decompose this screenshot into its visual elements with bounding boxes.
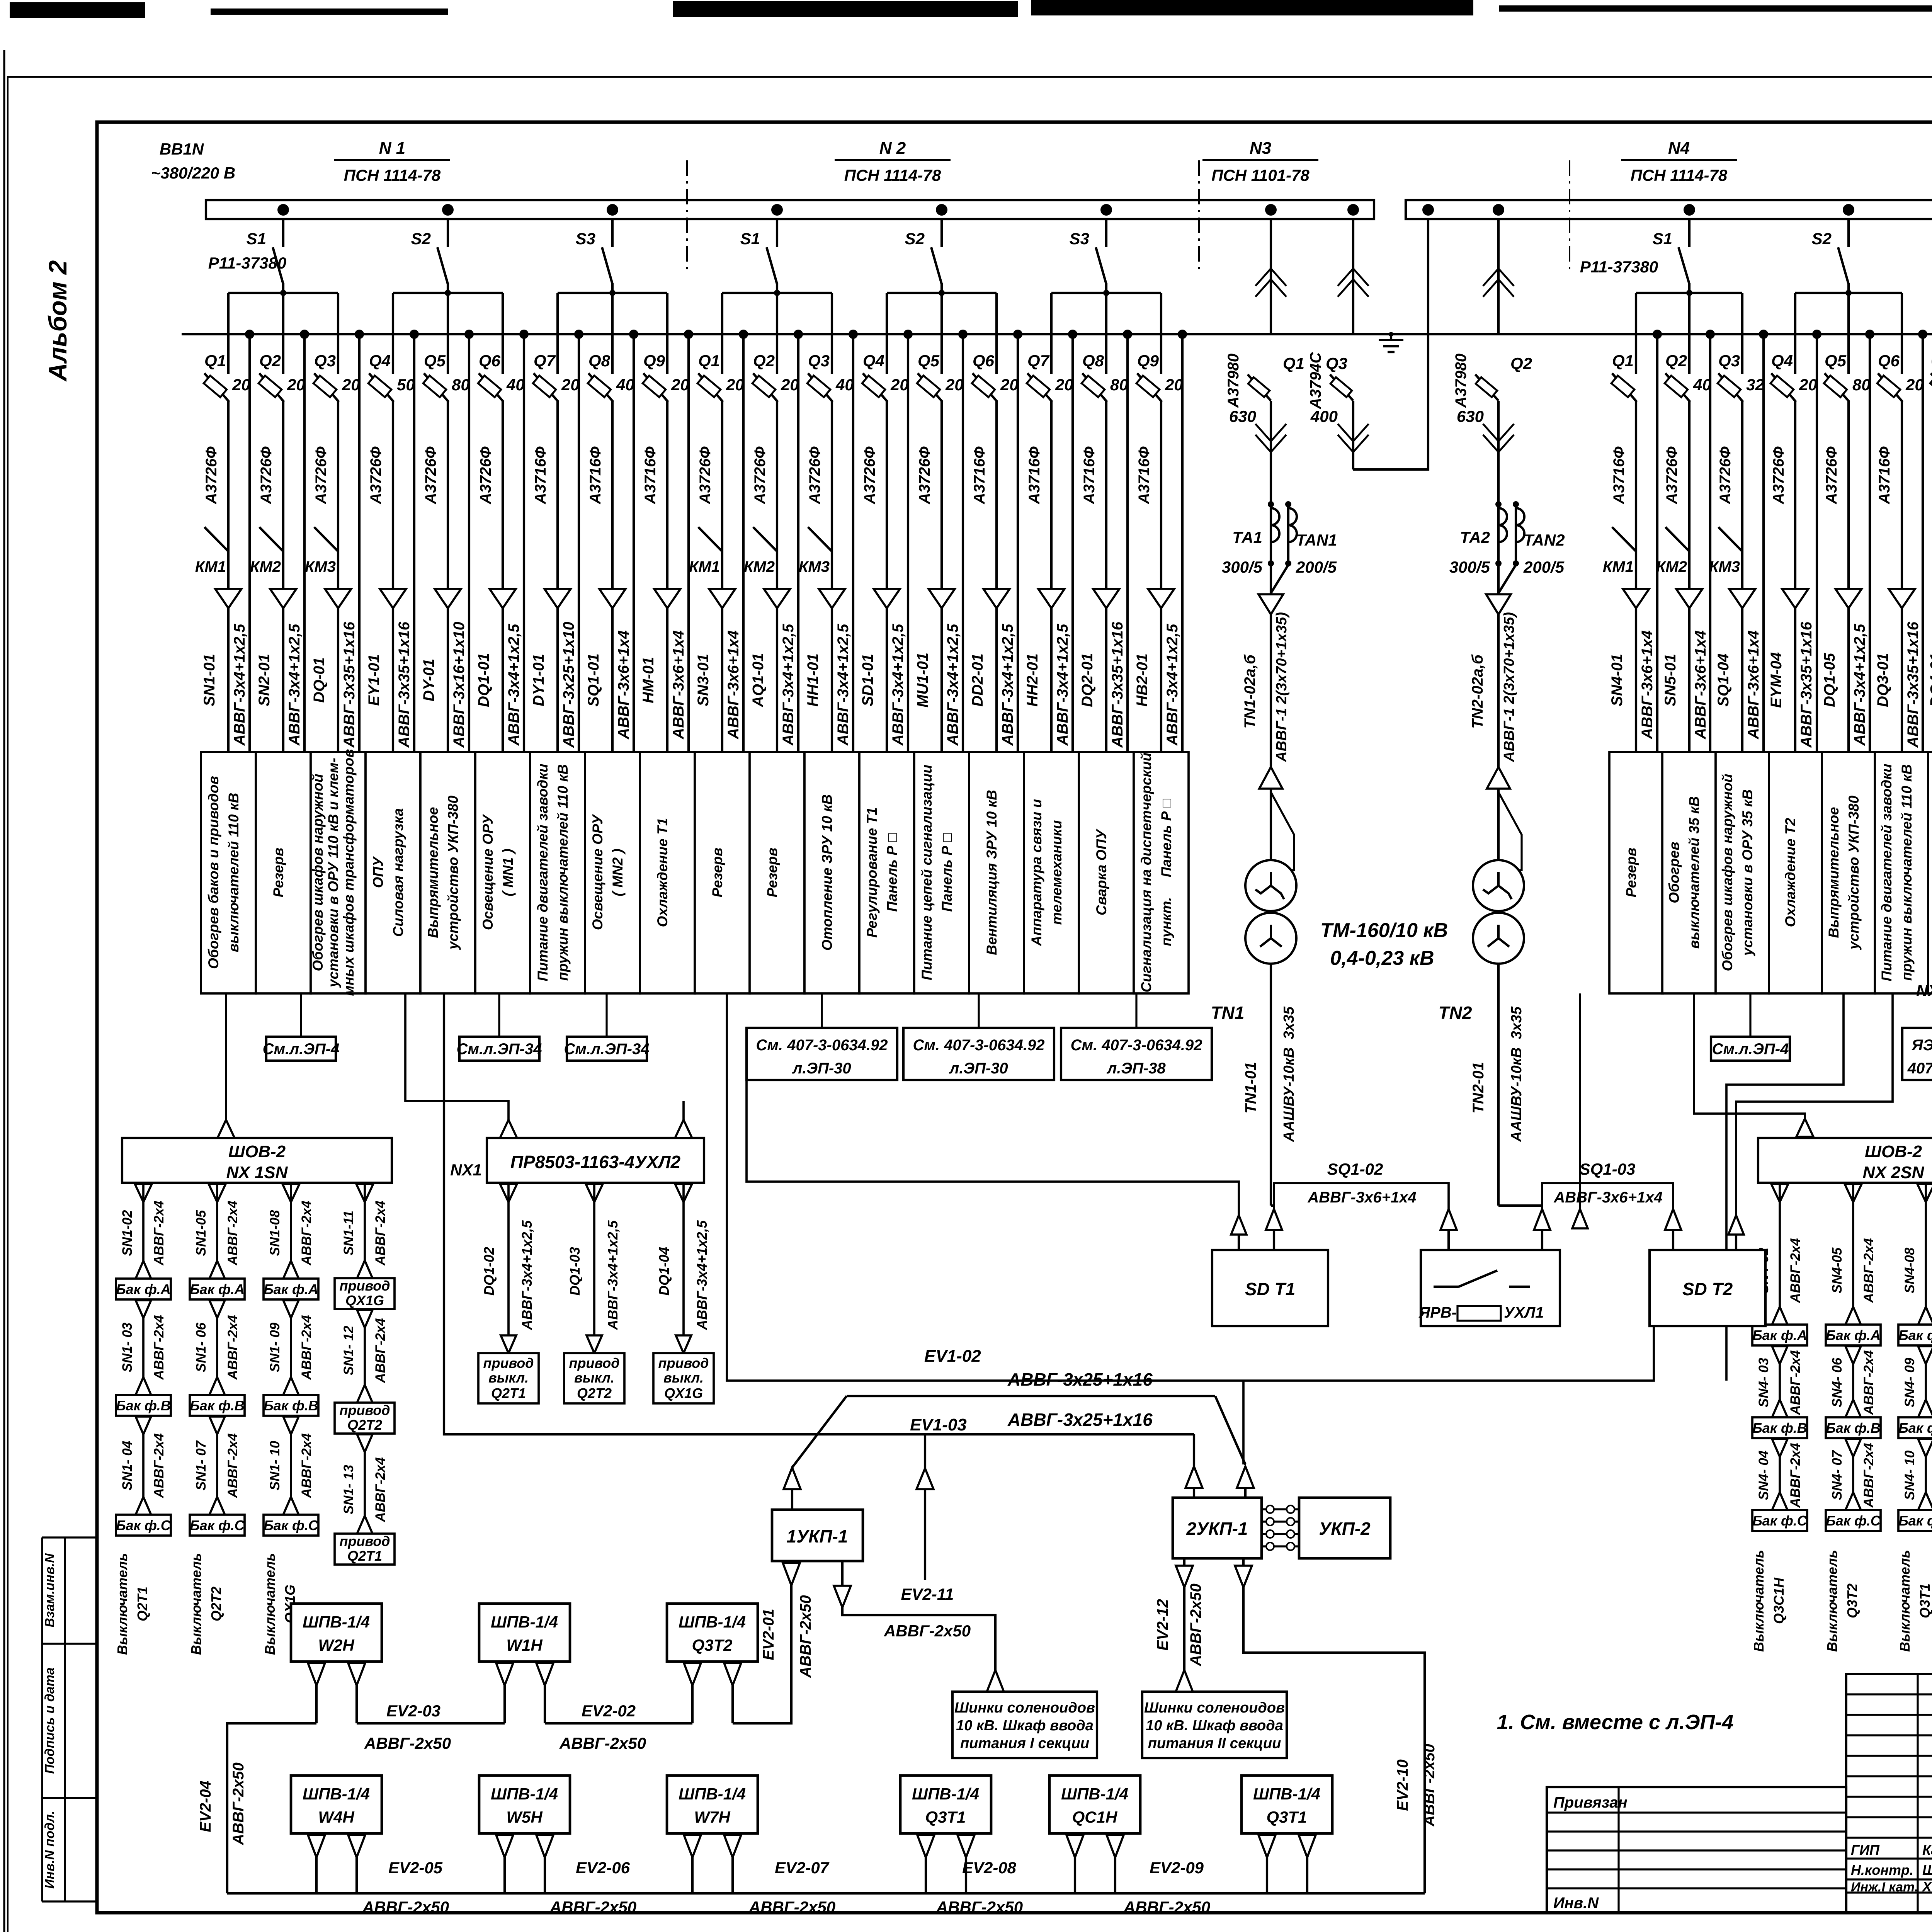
svg-text:АВВГ-1 2(3х70+1х35): АВВГ-1 2(3х70+1х35) (1274, 612, 1290, 762)
svg-text:200/5: 200/5 (1523, 558, 1565, 576)
ground symbol (1390, 334, 1392, 340)
svg-text:N 2: N 2 (879, 139, 906, 158)
svg-text:АВВГ-3х6+1х4: АВВГ-3х6+1х4 (1692, 630, 1709, 739)
svg-text:См.л.ЭП-4: См.л.ЭП-4 (1712, 1041, 1789, 1058)
svg-text:Привязан: Привязан (1553, 1794, 1628, 1811)
wire TN2 to lintel (1498, 1204, 1542, 1207)
svg-text:S1: S1 (1653, 230, 1672, 248)
svg-text:АВВГ-2х4: АВВГ-2х4 (225, 1315, 240, 1380)
cable arrow (874, 589, 900, 608)
breaker Q8 feeder (1079, 293, 1128, 752)
svg-text:См. 407-3-0634.92: См. 407-3-0634.92 (756, 1037, 888, 1054)
svg-text:EV2-08: EV2-08 (962, 1859, 1017, 1877)
load box: Сигнализация на диспетчерский (1134, 752, 1189, 993)
svg-text:Q2T2: Q2T2 (208, 1587, 224, 1621)
svg-text:SN1- 10: SN1- 10 (267, 1440, 282, 1490)
svg-text:выкл.: выкл. (574, 1370, 614, 1386)
svg-text:АВВГ-3х35+1х16: АВВГ-3х35+1х16 (396, 621, 413, 748)
svg-text:мных шкафов трансформаторов: мных шкафов трансформаторов (341, 749, 357, 996)
svg-text:Охлаждение Т1: Охлаждение Т1 (655, 818, 670, 927)
cable arrow (929, 589, 955, 608)
svg-text:Сварка ОПУ: Сварка ОПУ (1094, 828, 1109, 915)
svg-text:А3716Ф: А3716Ф (1026, 446, 1043, 505)
svg-text:АВВГ-3х4+1х2,5: АВВГ-3х4+1х2,5 (889, 624, 906, 746)
svg-text:КМ3: КМ3 (305, 558, 336, 575)
fanout column SN4-08 (1897, 1183, 1932, 1652)
ref box л.ЭП-30 (747, 993, 897, 1080)
svg-text:SN4- 04: SN4- 04 (1756, 1451, 1771, 1500)
svg-text:80: 80 (1110, 376, 1128, 394)
svg-text:Освещение ОРУ: Освещение ОРУ (590, 814, 605, 930)
svg-text:А3716Ф: А3716Ф (1081, 446, 1098, 505)
svg-text:N4: N4 (1668, 139, 1690, 158)
svg-text:EV2-09: EV2-09 (1150, 1859, 1204, 1877)
wire EV2-11 (834, 1561, 1004, 1692)
svg-text:Q3T1: Q3T1 (1917, 1583, 1932, 1618)
svg-text:ШПВ-1/4: ШПВ-1/4 (491, 1785, 558, 1803)
load box: Выпрямительное (1822, 752, 1875, 993)
svg-text:ТА1: ТА1 (1232, 528, 1262, 546)
svg-text:АВВГ-2х4: АВВГ-2х4 (225, 1201, 240, 1265)
arrow into SD T2 right (1728, 1215, 1744, 1235)
svg-text:EV2-03: EV2-03 (386, 1702, 440, 1720)
svg-text:20: 20 (671, 376, 689, 394)
breaker Q6 feeder (1874, 293, 1924, 752)
svg-text:АВВГ-2х50: АВВГ-2х50 (748, 1898, 835, 1916)
svg-text:Хействер: Хействер (1922, 1879, 1932, 1895)
svg-text:Q6: Q6 (973, 352, 995, 370)
svg-text:40: 40 (616, 376, 634, 394)
reserve tap wire (410, 330, 419, 339)
svg-text:80: 80 (1852, 376, 1871, 394)
svg-text:HB2-01: HB2-01 (1134, 653, 1151, 707)
svg-text:DQ3-01: DQ3-01 (1874, 653, 1891, 707)
feeder arrow TN2 (1486, 594, 1511, 614)
svg-text:ПСН 1114-78: ПСН 1114-78 (844, 166, 941, 184)
breaker Q9 feeder (1134, 293, 1183, 752)
svg-text:EV2-02: EV2-02 (582, 1702, 636, 1720)
svg-text:SD1-01: SD1-01 (859, 654, 876, 706)
breaker Q2 feeder (1656, 293, 1711, 752)
svg-text:Бак ф.С: Бак ф.С (116, 1517, 171, 1533)
cable arrow (435, 589, 461, 608)
title block (1846, 1674, 1932, 1913)
svg-text:QC1H: QC1H (1072, 1808, 1118, 1827)
current transformers ТА1/TAN1 (1222, 501, 1337, 593)
wire from load box to SD T2 (1736, 993, 1893, 1215)
svg-text:пружин выключателей 110 кВ: пружин выключателей 110 кВ (1899, 764, 1915, 981)
load box: Резерв (750, 752, 804, 993)
svg-text:SN2-01: SN2-01 (256, 654, 273, 706)
ref box л.ЭП-38 (1061, 993, 1212, 1080)
svg-text:20: 20 (945, 376, 964, 394)
svg-text:ШПВ-1/4: ШПВ-1/4 (491, 1613, 558, 1631)
feed to NX2SN (1694, 993, 1805, 1119)
svg-text:Бак ф.В: Бак ф.В (264, 1398, 318, 1413)
svg-text:установки в ОРУ 35 кВ: установки в ОРУ 35 кВ (1740, 789, 1755, 957)
current transformers ТА2/TAN2 (1449, 501, 1565, 593)
svg-text:Q3: Q3 (314, 352, 336, 370)
cable arrow (1093, 589, 1119, 608)
svg-text:Резерв: Резерв (764, 848, 780, 898)
svg-text:АВВГ-2х50: АВВГ-2х50 (1187, 1583, 1204, 1667)
breaker Q3 feeder (305, 293, 360, 752)
svg-text:20: 20 (1905, 376, 1924, 394)
feeds to PR8503 (405, 993, 509, 1120)
svg-text:SN1- 03: SN1- 03 (120, 1322, 135, 1372)
svg-text:Выключатель: Выключатель (1824, 1550, 1840, 1652)
svg-text:Бак ф.С: Бак ф.С (1826, 1513, 1881, 1529)
svg-text:DQ1-03: DQ1-03 (567, 1247, 583, 1296)
svg-text:Q3: Q3 (808, 352, 830, 370)
svg-text:EV2-12: EV2-12 (1154, 1599, 1171, 1650)
svg-text:ПСН 1114-78: ПСН 1114-78 (1631, 166, 1728, 184)
ref box л.ЭП-30 (903, 993, 1054, 1080)
load box: Питание двигателей заводки (1875, 752, 1928, 993)
title block left extension (1547, 1787, 1846, 1913)
load box: Резерв (256, 752, 311, 993)
svg-text:SD T1: SD T1 (1245, 1279, 1295, 1299)
svg-text:HH1-01: HH1-01 (804, 653, 821, 707)
svg-text:S3: S3 (1070, 230, 1089, 248)
svg-text:АВВГ-3х4+1х2,5: АВВГ-3х4+1х2,5 (605, 1220, 621, 1330)
wire EV2-10 (1235, 1559, 1438, 1893)
svg-text:АВВГ-2х4: АВВГ-2х4 (299, 1201, 314, 1265)
svg-text:УКП-2: УКП-2 (1319, 1519, 1371, 1539)
svg-text:1УКП-1: 1УКП-1 (786, 1526, 848, 1546)
svg-text:32: 32 (1746, 376, 1764, 394)
svg-text:Бак ф.В: Бак ф.В (116, 1398, 171, 1413)
svg-text:А37980: А37980 (1452, 354, 1469, 408)
svg-text:А3726Ф: А3726Ф (806, 446, 823, 505)
svg-text:Подпись и дата: Подпись и дата (43, 1667, 57, 1774)
svg-text:DY1-01: DY1-01 (530, 654, 547, 706)
cable SQ1-03 lintel (1534, 1160, 1681, 1250)
svg-text:Q2: Q2 (753, 352, 775, 370)
svg-text:АВВГ-2х4: АВВГ-2х4 (299, 1315, 314, 1380)
svg-text:АВВГ-3х35+1х16: АВВГ-3х35+1х16 (341, 621, 358, 748)
svg-text:TN1-02а,б: TN1-02а,б (1242, 654, 1259, 729)
svg-text:W4H: W4H (318, 1808, 355, 1826)
load box: Питание двигателей заводки (530, 752, 585, 993)
svg-text:КМ3: КМ3 (1709, 558, 1740, 575)
svg-text:SN1- 06: SN1- 06 (194, 1322, 209, 1372)
svg-text:А3726Ф: А3726Ф (861, 446, 878, 505)
svg-text:А3726Ф: А3726Ф (313, 446, 330, 505)
cable arrow (1835, 589, 1862, 608)
svg-text:АВВГ-3х6+1х4: АВВГ-3х6+1х4 (1553, 1189, 1662, 1206)
svg-text:Q9: Q9 (1137, 352, 1159, 370)
svg-text:установки в ОРУ 110 кВ и клем-: установки в ОРУ 110 кВ и клем- (325, 758, 341, 988)
load box: Обогрев шкафов наружной (1716, 752, 1769, 993)
svg-text:Обогрев баков и приводов: Обогрев баков и приводов (206, 776, 221, 969)
svg-text:AQ1-01: AQ1-01 (750, 653, 767, 707)
svg-text:КМ1: КМ1 (195, 558, 226, 575)
svg-text:АВВГ-3х25+1х16: АВВГ-3х25+1х16 (1007, 1369, 1153, 1389)
svg-text:См.л.ЭП-34: См.л.ЭП-34 (564, 1041, 650, 1058)
reserve tap wire (1123, 330, 1132, 339)
svg-text:А3726Ф: А3726Ф (1823, 446, 1840, 505)
svg-text:Q1: Q1 (1612, 352, 1634, 370)
cable arrow (983, 589, 1010, 608)
svg-text:АВВГ-2х50: АВВГ-2х50 (884, 1622, 971, 1640)
svg-text:выкл.: выкл. (488, 1370, 529, 1386)
svg-text:Отопление ЗРУ 10 кВ: Отопление ЗРУ 10 кВ (819, 794, 835, 951)
reserve tap wire (739, 330, 748, 339)
svg-text:А3726Ф: А3726Ф (422, 446, 439, 505)
transformer TN1 (1211, 792, 1296, 1206)
svg-text:См. 407-3-0634.92: См. 407-3-0634.92 (1071, 1037, 1202, 1054)
bus sections N4-N5 (1406, 200, 1932, 219)
svg-text:АВВГ-2х4: АВВГ-2х4 (151, 1315, 167, 1380)
wire to 2UKP right arrow (1242, 1381, 1245, 1464)
svg-text:SN1- 09: SN1- 09 (267, 1322, 282, 1372)
fuse feeder DQ1-03 (564, 1183, 624, 1403)
svg-text:EV1-02: EV1-02 (924, 1347, 981, 1366)
svg-text:ПР8503-1163-4УХЛ2: ПР8503-1163-4УХЛ2 (510, 1152, 681, 1172)
svg-text:SN1-08: SN1-08 (267, 1210, 282, 1256)
svg-text:20: 20 (1055, 376, 1073, 394)
svg-text:Резерв: Резерв (1623, 848, 1639, 898)
svg-text:ШПВ-1/4: ШПВ-1/4 (303, 1613, 370, 1631)
svg-text:10 кВ. Шкаф ввода: 10 кВ. Шкаф ввода (1146, 1718, 1283, 1734)
contactor КМ1 (698, 527, 722, 551)
wire bracket (1636, 292, 1742, 294)
breaker Q7 feeder (1024, 293, 1073, 752)
wire EV2-04 (227, 1723, 316, 1893)
svg-text:А3726Ф: А3726Ф (1717, 446, 1734, 505)
breaker Q2 feeder (250, 293, 305, 752)
svg-text:А3726Ф: А3726Ф (1663, 446, 1680, 505)
svg-text:40: 40 (835, 376, 854, 394)
reserve tap wire (1013, 330, 1022, 339)
fuse feeder DQ1-02 (478, 1183, 539, 1403)
svg-text:ААШВУ-10кВ 3х35: ААШВУ-10кВ 3х35 (1509, 1006, 1525, 1142)
svg-text:Резерв: Резерв (709, 848, 725, 898)
svg-text:SN4- 06: SN4- 06 (1830, 1357, 1845, 1407)
wire from ref box to SD T1 (747, 1080, 1239, 1215)
svg-text:EV2-11: EV2-11 (901, 1585, 954, 1603)
box ShPV QC1H (1049, 1776, 1140, 1893)
svg-text:А3726Ф: А3726Ф (916, 446, 933, 505)
reserve tap wire (1706, 330, 1715, 339)
reserve tap wire (1918, 330, 1927, 339)
svg-text:устройство УКП-380: устройство УКП-380 (445, 796, 461, 951)
TN1 feeder from bus N3 (1225, 204, 1304, 595)
svg-text:привод: привод (569, 1355, 619, 1371)
svg-text:АВВГ-3х4+1х2,5: АВВГ-3х4+1х2,5 (1851, 624, 1868, 746)
breaker Q7 feeder (1927, 293, 1932, 752)
svg-text:Бак ф.А: Бак ф.А (1752, 1327, 1807, 1343)
wire EV2-12 (1154, 1559, 1204, 1692)
svg-text:0,4-0,23 кВ: 0,4-0,23 кВ (1330, 947, 1434, 969)
svg-text:АВВГ-2х4: АВВГ-2х4 (299, 1433, 314, 1498)
svg-text:Q4: Q4 (369, 352, 391, 370)
svg-text:SN4- 07: SN4- 07 (1830, 1450, 1845, 1500)
svg-text:Q3T1: Q3T1 (925, 1808, 966, 1827)
svg-text:200/5: 200/5 (1296, 558, 1337, 576)
wire bracket (1051, 292, 1161, 294)
switch S2 (1847, 219, 1850, 247)
load box: Сварка ОРУ 110 кВ (1928, 752, 1932, 993)
svg-text:Q5: Q5 (1825, 352, 1847, 370)
ref box См.л.ЭП-34 (457, 993, 542, 1061)
fuse feeder DQ1-04 (653, 1183, 714, 1403)
svg-text:А3794С: А3794С (1307, 352, 1324, 410)
reserve tap wire (300, 330, 309, 339)
svg-text:АВВГ-1 2(3х70+1х35): АВВГ-1 2(3х70+1х35) (1501, 612, 1517, 762)
svg-text:АВВГ-3х6+1х4: АВВГ-3х6+1х4 (1639, 630, 1656, 739)
load box: Обогрев (1662, 752, 1716, 993)
svg-text:А3716Ф: А3716Ф (1876, 446, 1893, 505)
cable arrow (1148, 589, 1174, 608)
fuse cabinet PR8503 (487, 1138, 704, 1183)
svg-text:SN1- 07: SN1- 07 (194, 1440, 209, 1490)
svg-text:Q3T2: Q3T2 (692, 1636, 732, 1655)
contactor КМ1 (1612, 527, 1636, 551)
svg-text:Q8: Q8 (588, 352, 611, 370)
svg-text:20: 20 (890, 376, 909, 394)
svg-text:SN4-05: SN4-05 (1830, 1247, 1845, 1293)
svg-text:АВВГ-2х4: АВВГ-2х4 (373, 1457, 388, 1522)
svg-text:Q2T2: Q2T2 (577, 1385, 612, 1401)
svg-text:Инв.N: Инв.N (1553, 1895, 1599, 1912)
svg-text:Q3T1: Q3T1 (1266, 1808, 1307, 1827)
svg-text:А3726Ф: А3726Ф (477, 446, 494, 505)
svg-text:Шинки соленоидов: Шинки соленоидов (954, 1700, 1095, 1716)
svg-text:Бак ф.В: Бак ф.В (190, 1398, 245, 1413)
bottom run to SD T2 (727, 993, 1654, 1381)
cable arrow (654, 589, 680, 608)
svg-text:А3726Ф: А3726Ф (258, 446, 275, 505)
svg-text:А3716Ф: А3716Ф (1611, 446, 1628, 505)
breaker Q8 feeder (585, 293, 634, 752)
breaker Q9 feeder (640, 293, 689, 752)
svg-text:привод: привод (483, 1355, 534, 1371)
svg-text:SN4- 03: SN4- 03 (1756, 1357, 1771, 1407)
svg-text:АВВГ-2х50: АВВГ-2х50 (230, 1762, 247, 1845)
svg-text:А3726Ф: А3726Ф (203, 446, 220, 505)
ref box См.л.ЭП-4 (263, 993, 340, 1061)
cable arrow (599, 589, 626, 608)
svg-text:Q6: Q6 (479, 352, 501, 370)
svg-text:А3716Ф: А3716Ф (1929, 446, 1932, 505)
svg-text:300/5: 300/5 (1222, 558, 1263, 576)
reserve tap wire (245, 330, 254, 339)
wire TN1 to lintel (1271, 1204, 1274, 1207)
svg-text:АВВГ-2х50: АВВГ-2х50 (362, 1898, 449, 1916)
transformer TN2 (1439, 792, 1524, 1206)
contactor КМ3 (808, 527, 832, 551)
collector bus line (182, 333, 1932, 335)
svg-text:ГИП: ГИП (1851, 1842, 1880, 1858)
svg-text:ШПВ-1/4: ШПВ-1/4 (912, 1785, 979, 1803)
svg-text:Q2: Q2 (1510, 354, 1532, 373)
svg-text:Q3: Q3 (1718, 352, 1740, 370)
svg-text:АВВГ-2х4: АВВГ-2х4 (1788, 1350, 1803, 1415)
solenoid bus box I (952, 1692, 1097, 1758)
load box: Охлаждение Т1 (640, 752, 695, 993)
arrow into TN2 (1487, 767, 1510, 789)
svg-text:АВВГ-2х50: АВВГ-2х50 (1421, 1744, 1438, 1827)
panel 1UKP-1 (772, 1468, 863, 1561)
svg-text:КМ2: КМ2 (744, 558, 775, 575)
svg-text:ПСН 1114-78: ПСН 1114-78 (344, 166, 441, 184)
ref box 4070УХЛ2 (1902, 993, 1932, 1080)
load box: Освещение ОРУ (475, 752, 530, 993)
reserve tap wire (794, 330, 803, 339)
svg-text:Бак ф.В: Бак ф.В (1898, 1420, 1932, 1436)
svg-text:А3726Ф: А3726Ф (752, 446, 769, 505)
svg-text:SQ1-01: SQ1-01 (585, 653, 602, 707)
svg-text:Выключатель: Выключатель (262, 1553, 278, 1655)
reserve tap wire (1759, 330, 1768, 339)
svg-text:Питание двигателей заводки: Питание двигателей заводки (1879, 764, 1895, 981)
svg-text:10 кВ. Шкаф ввода: 10 кВ. Шкаф ввода (956, 1718, 1094, 1734)
contactor КМ2 (259, 527, 283, 551)
svg-text:КМ2: КМ2 (250, 558, 281, 575)
svg-text:питания I секции: питания I секции (960, 1735, 1089, 1752)
box ShPV Q3T2 (667, 1604, 758, 1723)
svg-text:ШПВ-1/4: ШПВ-1/4 (679, 1613, 746, 1631)
load box: Отопление ЗРУ 10 кВ (804, 752, 859, 993)
svg-text:EV2-10: EV2-10 (1394, 1759, 1411, 1811)
svg-text:АВВГ-3х6+1х4: АВВГ-3х6+1х4 (1307, 1189, 1416, 1206)
wire EV2-01 (733, 1561, 791, 1723)
svg-text:АВВГ-2х50: АВВГ-2х50 (936, 1898, 1023, 1916)
contactor КМ3 (1718, 527, 1742, 551)
wire bracket (722, 292, 832, 294)
svg-text:АВВГ-2х4: АВВГ-2х4 (373, 1318, 388, 1383)
svg-text:Освещение ОРУ: Освещение ОРУ (480, 814, 496, 930)
svg-text:АВВГ-3х4+1х2,5: АВВГ-3х4+1х2,5 (694, 1220, 710, 1330)
svg-text:20: 20 (561, 376, 580, 394)
solenoid bus box II (1142, 1692, 1287, 1758)
scanner artifact bars top (10, 2, 145, 18)
svg-text:АВВГ-2х4: АВВГ-2х4 (151, 1201, 167, 1265)
breaker Q4 feeder (859, 293, 909, 752)
reserve tap wire (629, 330, 638, 339)
svg-text:АВВГ-2х4: АВВГ-2х4 (1861, 1443, 1876, 1508)
svg-text:Q2T1: Q2T1 (491, 1385, 526, 1401)
svg-text:Н.контр.: Н.контр. (1851, 1862, 1913, 1878)
svg-text:S3: S3 (576, 230, 595, 248)
svg-text:Инж.I кат.: Инж.I кат. (1851, 1880, 1918, 1895)
svg-text:Бак ф.А: Бак ф.А (1826, 1327, 1881, 1343)
svg-text:Q5: Q5 (424, 352, 446, 370)
svg-text:ЯЭ 8101-: ЯЭ 8101- (1911, 1037, 1932, 1054)
svg-text:Q4: Q4 (863, 352, 884, 370)
svg-text:устройство УКП-380: устройство УКП-380 (1846, 796, 1862, 951)
svg-text:TN1: TN1 (1211, 1003, 1245, 1023)
svg-text:HH2-01: HH2-01 (1024, 653, 1041, 707)
svg-text:EV2-01: EV2-01 (760, 1609, 777, 1660)
svg-text:Питание цепей сигнализации: Питание цепей сигнализации (919, 765, 935, 980)
svg-text:АВВГ-2х50: АВВГ-2х50 (559, 1734, 646, 1752)
svg-text:Сигнализация на диспетчерский: Сигнализация на диспетчерский (1138, 753, 1154, 993)
svg-text:Q6: Q6 (1878, 352, 1900, 370)
arrow into TN1 (1259, 767, 1282, 789)
svg-text:Выпрямительное: Выпрямительное (425, 807, 441, 938)
cable arrow (1729, 589, 1755, 608)
svg-text:л.ЭП-30: л.ЭП-30 (949, 1060, 1008, 1077)
svg-text:ШОВ-2: ШОВ-2 (1865, 1142, 1922, 1161)
svg-text:Вентиляция ЗРУ 10 кВ: Вентиляция ЗРУ 10 кВ (984, 790, 1000, 955)
box YARV fuse switch (1418, 1250, 1560, 1326)
switch S1 (282, 219, 284, 247)
svg-text:NX 2SN: NX 2SN (1863, 1163, 1925, 1182)
svg-text:SN1-11: SN1-11 (341, 1211, 356, 1255)
